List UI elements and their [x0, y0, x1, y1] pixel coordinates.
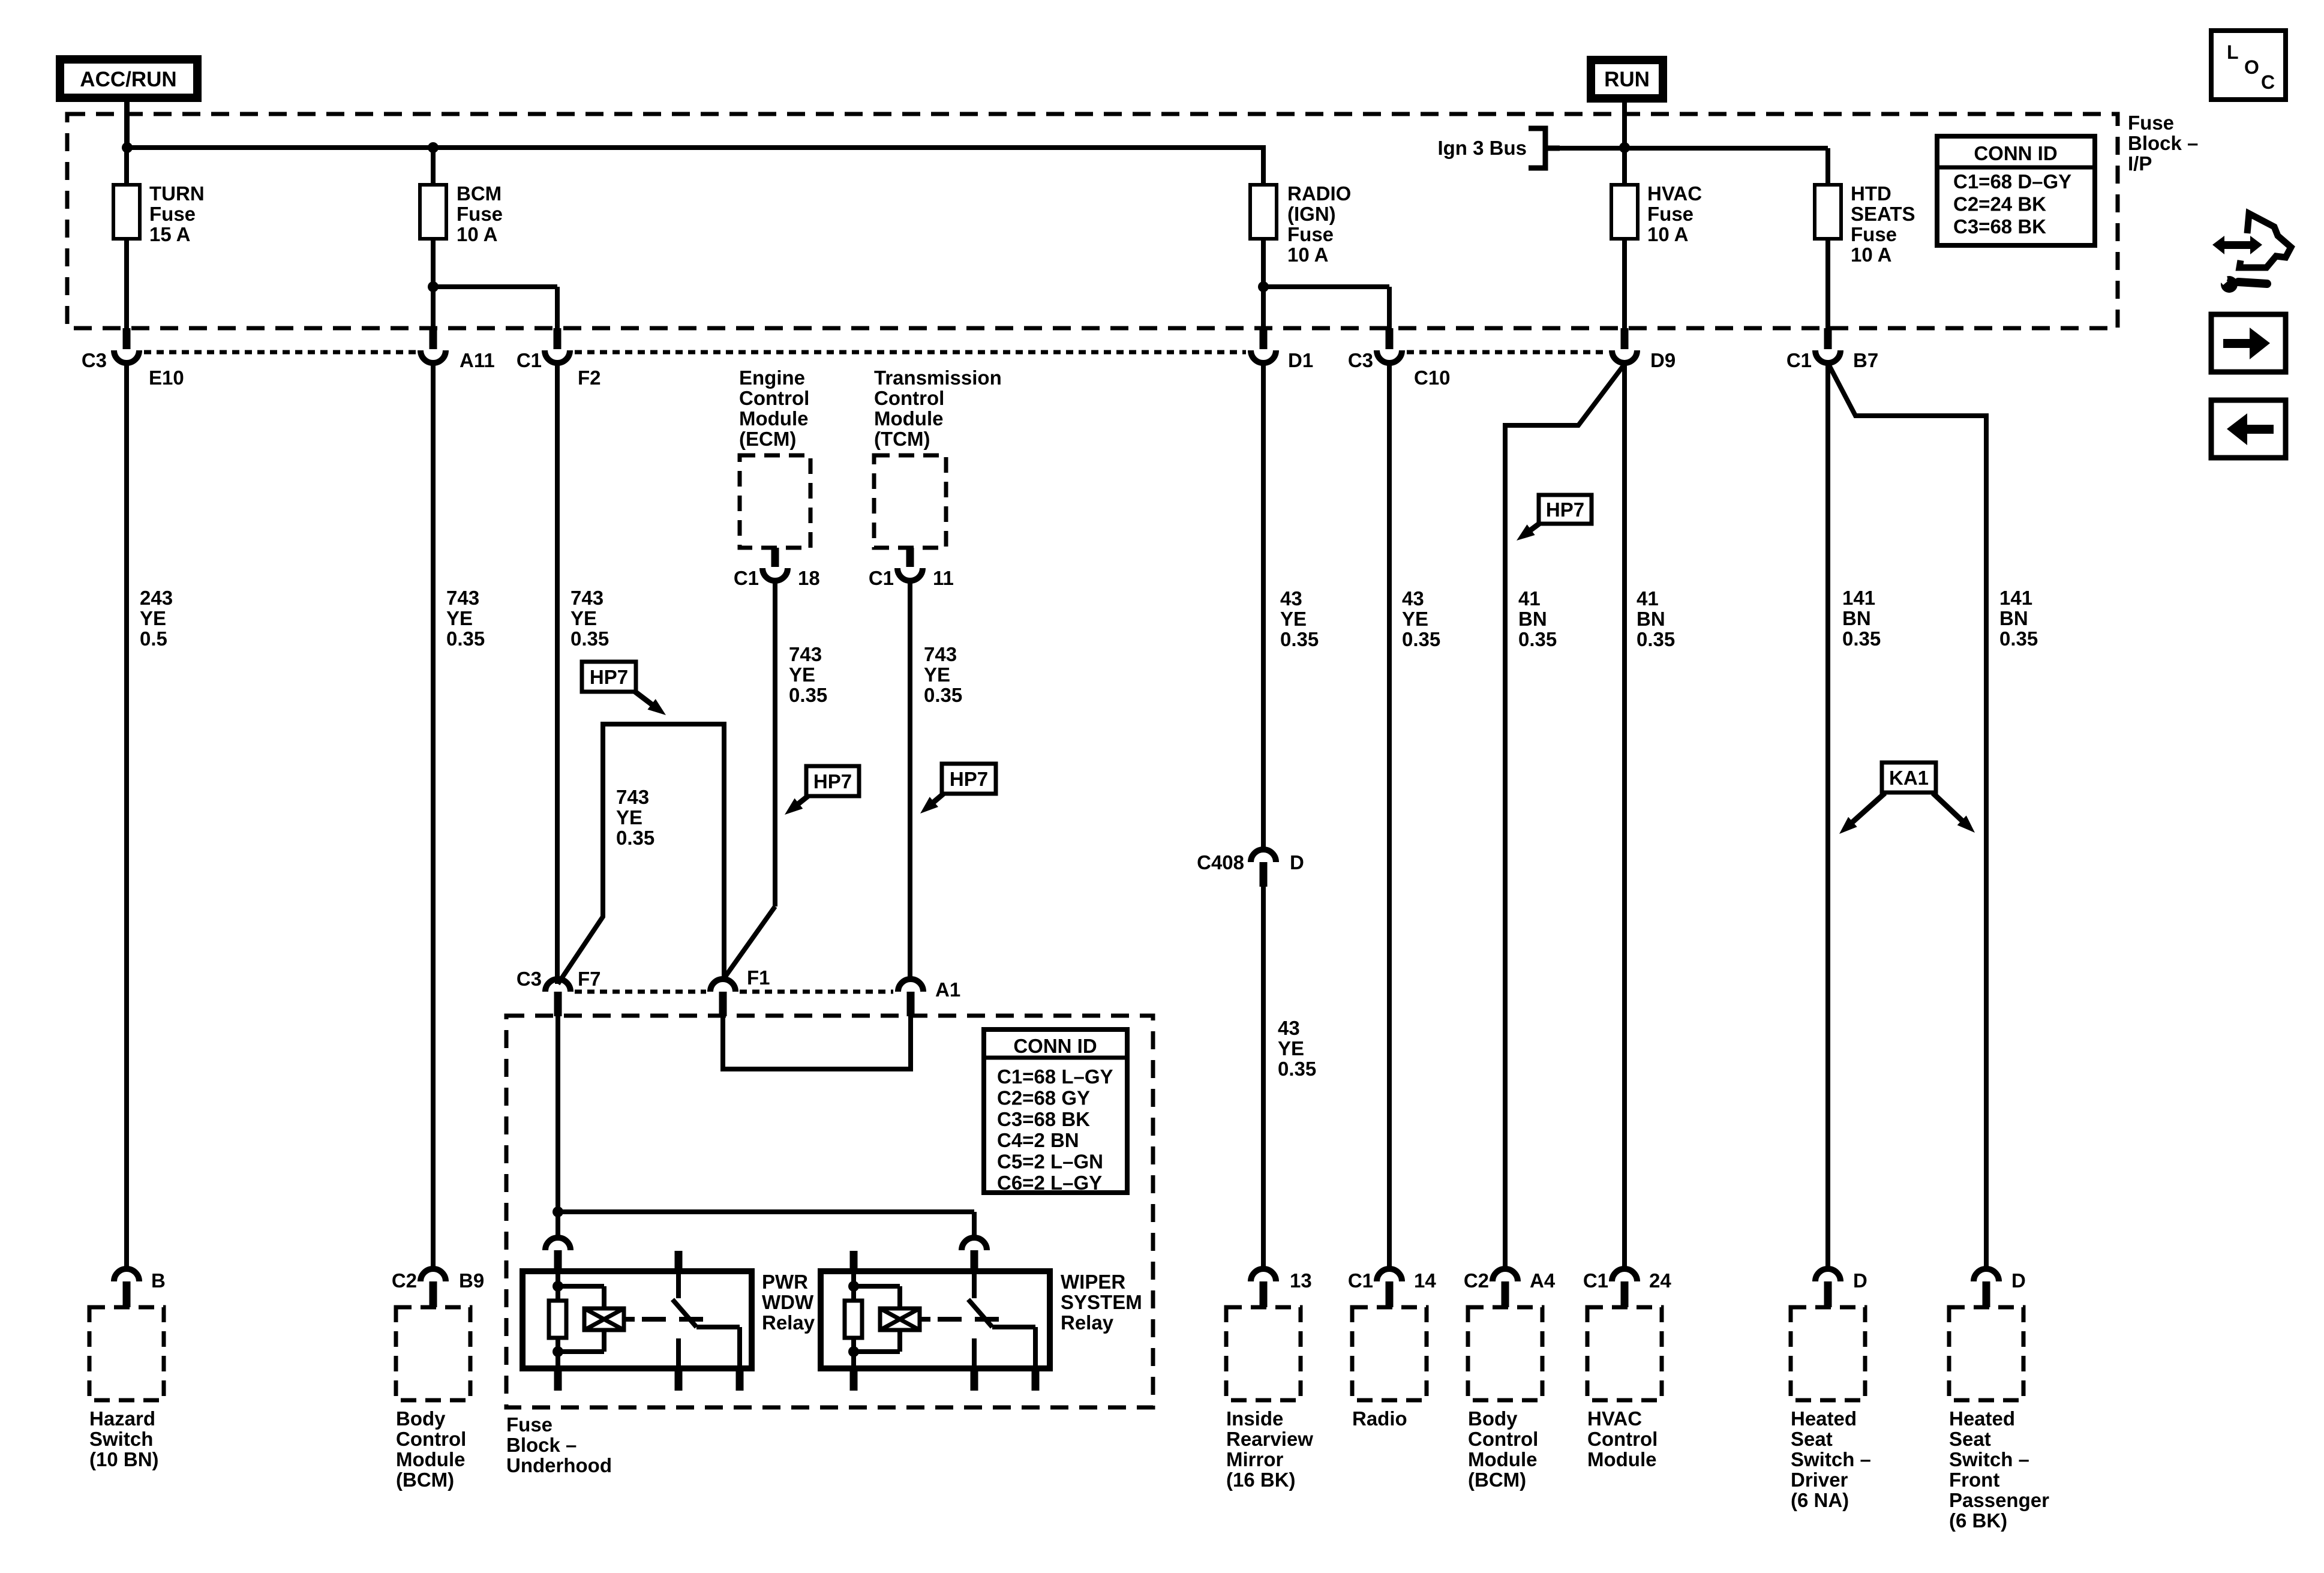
- wire 41 BN D9 to HVAC module: [1622, 363, 1627, 1269]
- svg-text:13: 13: [1290, 1269, 1312, 1292]
- svg-text:141: 141: [1999, 587, 2032, 609]
- svg-text:B: B: [151, 1269, 166, 1292]
- svg-text:10 A: 10 A: [1647, 223, 1688, 245]
- wire RUN feed down: [1622, 98, 1627, 185]
- svg-text:A4: A4: [1530, 1269, 1556, 1292]
- svg-text:10 A: 10 A: [457, 223, 497, 245]
- svg-text:24: 24: [1649, 1269, 1671, 1292]
- label Inside Rearview Mirror: [1226, 1407, 1313, 1491]
- svg-text:Heated: Heated: [1949, 1407, 2015, 1430]
- svg-text:Fuse: Fuse: [149, 203, 196, 225]
- component radio connector: [1377, 1269, 1402, 1307]
- svg-text:Mirror: Mirror: [1226, 1448, 1284, 1470]
- svg-text:0.5: 0.5: [140, 628, 167, 650]
- svg-text:YE: YE: [140, 607, 166, 629]
- label pin D passenger: [2011, 1269, 2026, 1292]
- component radio dashed box: [1352, 1307, 1427, 1400]
- svg-text:Module: Module: [874, 407, 943, 430]
- label wire 743 YE 0.35 loop: [616, 786, 654, 849]
- svg-text:Fuse: Fuse: [1851, 223, 1897, 245]
- connector C3 pin F7: [545, 979, 571, 1016]
- svg-text:0.35: 0.35: [571, 628, 609, 650]
- wiper relay bottom pins: [850, 1368, 1040, 1391]
- svg-text:(10 BN): (10 BN): [89, 1448, 159, 1470]
- svg-text:C4=2 BN: C4=2 BN: [997, 1129, 1079, 1151]
- svg-text:0.35: 0.35: [924, 684, 962, 706]
- connector C408 pin D: [1251, 849, 1276, 887]
- svg-text:141: 141: [1842, 587, 1875, 609]
- svg-text:Module: Module: [1587, 1448, 1656, 1470]
- svg-text:C1: C1: [734, 567, 759, 589]
- arrow HP7 b: [785, 795, 809, 815]
- wire 43 YE D1 to C408: [1261, 363, 1266, 849]
- svg-text:KA1: KA1: [1889, 767, 1929, 789]
- svg-text:D: D: [1853, 1269, 1867, 1292]
- svg-text:(TCM): (TCM): [874, 428, 930, 450]
- svg-text:0.35: 0.35: [1278, 1058, 1316, 1080]
- label C10: [1414, 367, 1451, 389]
- svg-text:(BCM): (BCM): [1468, 1469, 1526, 1491]
- component inside rearview mirror dashed box: [1226, 1307, 1301, 1400]
- svg-text:C3=68 BK: C3=68 BK: [1953, 215, 2046, 238]
- label WIPER SYSTEM Relay: [1061, 1271, 1142, 1334]
- arrow KA1 left: [1839, 793, 1885, 834]
- label wire 43 YE 0.35 b: [1278, 1017, 1316, 1080]
- label D9: [1650, 349, 1676, 371]
- svg-text:Block –: Block –: [2128, 132, 2198, 154]
- svg-text:Control: Control: [1468, 1428, 1538, 1450]
- wire ACC/RUN bus: [127, 145, 1266, 150]
- svg-text:Body: Body: [396, 1407, 446, 1430]
- svg-text:Fuse: Fuse: [1647, 203, 1694, 225]
- label Transmission Control Module: [874, 367, 1002, 450]
- svg-text:YE: YE: [1402, 608, 1428, 630]
- svg-text:HVAC: HVAC: [1587, 1407, 1642, 1430]
- svg-text:C2: C2: [1464, 1269, 1489, 1292]
- svg-text:Switch –: Switch –: [1791, 1448, 1871, 1470]
- label B7: [1853, 349, 1878, 371]
- wire 743 YE from ECM: [723, 581, 775, 979]
- svg-text:D: D: [1290, 851, 1304, 873]
- conn id table fuse block I/P: [1937, 136, 2095, 245]
- svg-text:C5=2 L–GN: C5=2 L–GN: [997, 1151, 1103, 1173]
- label C1 of F2: [517, 349, 542, 371]
- connector C1 pin B7: [1815, 328, 1840, 363]
- svg-text:Fuse: Fuse: [506, 1413, 553, 1436]
- svg-text:WDW: WDW: [762, 1291, 814, 1313]
- svg-text:Switch –: Switch –: [1949, 1448, 2029, 1470]
- label PWR WDW Relay: [762, 1271, 815, 1334]
- svg-text:C3: C3: [517, 968, 542, 990]
- label pin 18: [798, 567, 820, 589]
- module TCM dashed box: [874, 455, 946, 548]
- label KA1 splice: [1882, 763, 1936, 792]
- module ECM dashed box: [740, 455, 810, 548]
- svg-text:F1: F1: [747, 966, 770, 989]
- fuse RADIO IGN 10A: [1250, 185, 1277, 328]
- wire ACC/RUN feed down: [125, 98, 130, 148]
- svg-text:C1: C1: [1786, 349, 1812, 371]
- label C3 of C10: [1348, 349, 1373, 371]
- label HP7 splice c: [942, 764, 996, 794]
- label HP7 splice a: [582, 662, 636, 692]
- svg-text:A1: A1: [935, 978, 960, 1001]
- label Ign 3 Bus: [1437, 137, 1527, 159]
- label C1 of TCM: [869, 567, 894, 589]
- wire bus drop to RADIO fuse: [433, 148, 1263, 185]
- component hazard switch dashed box: [89, 1307, 164, 1400]
- connector C3 pin C10: [1377, 328, 1402, 363]
- svg-text:TURN: TURN: [149, 182, 205, 205]
- label Radio: [1352, 1407, 1407, 1430]
- connector C1 pin 11 of TCM: [897, 548, 923, 581]
- svg-text:D9: D9: [1650, 349, 1676, 371]
- label HTD SEATS fuse: [1851, 182, 1915, 266]
- svg-text:Ign 3 Bus: Ign 3 Bus: [1437, 137, 1527, 159]
- arrow KA1 right: [1933, 793, 1975, 833]
- svg-text:HTD: HTD: [1851, 182, 1891, 205]
- label wire 41 BN 0.35 a: [1518, 587, 1557, 650]
- svg-text:C1=68 L–GY: C1=68 L–GY: [997, 1065, 1113, 1088]
- label HVAC Control Module: [1587, 1407, 1658, 1470]
- label C1 of HVAC: [1583, 1269, 1608, 1292]
- svg-text:0.35: 0.35: [1842, 628, 1881, 650]
- svg-text:(16 BK): (16 BK): [1226, 1469, 1296, 1491]
- svg-text:C10: C10: [1414, 367, 1451, 389]
- wire 743 YE to BCM B9: [431, 363, 436, 1269]
- connector pin A11: [421, 328, 446, 363]
- wire 141 BN B7 to driver switch: [1825, 363, 1830, 1269]
- label pin 24: [1649, 1269, 1671, 1292]
- svg-text:SYSTEM: SYSTEM: [1061, 1291, 1142, 1313]
- svg-text:O: O: [2244, 56, 2259, 78]
- svg-text:C3=68 BK: C3=68 BK: [997, 1108, 1090, 1130]
- bracket Ign 3 Bus: [1529, 128, 1560, 168]
- relay PWR WDW box: [523, 1271, 752, 1368]
- svg-text:Module: Module: [1468, 1448, 1537, 1470]
- pwr wdw relay resistor: [549, 1271, 566, 1368]
- svg-text:HP7: HP7: [1546, 499, 1584, 521]
- svg-text:YE: YE: [446, 607, 473, 629]
- component heated seat switch passenger connector: [1974, 1269, 1999, 1307]
- component body control module 1 connector: [421, 1269, 446, 1307]
- connector C1 pin 18 of ECM: [762, 548, 788, 581]
- label C408: [1197, 851, 1244, 873]
- svg-text:Inside: Inside: [1226, 1407, 1283, 1430]
- label pin 14: [1414, 1269, 1436, 1292]
- svg-text:BN: BN: [1637, 608, 1665, 630]
- component hazard switch connector: [114, 1269, 139, 1307]
- component body control module 1 dashed box: [396, 1307, 470, 1400]
- svg-text:Radio: Radio: [1352, 1407, 1407, 1430]
- svg-text:YE: YE: [1280, 608, 1307, 630]
- svg-text:43: 43: [1280, 587, 1302, 610]
- label pin B hazard: [151, 1269, 166, 1292]
- label C3: [82, 349, 107, 371]
- node Ign 3 Bus junction: [1619, 142, 1630, 153]
- icon LOC box: [2211, 31, 2286, 100]
- svg-text:C6=2 L–GY: C6=2 L–GY: [997, 1172, 1102, 1194]
- svg-text:YE: YE: [924, 664, 950, 686]
- svg-text:743: 743: [571, 587, 603, 609]
- svg-text:YE: YE: [1278, 1037, 1304, 1059]
- label Hazard Switch: [89, 1407, 159, 1470]
- svg-text:E10: E10: [149, 367, 184, 389]
- svg-text:C3: C3: [82, 349, 107, 371]
- arrow HP7 d: [1517, 523, 1540, 541]
- svg-text:743: 743: [616, 786, 649, 808]
- svg-text:41: 41: [1518, 587, 1541, 610]
- svg-text:41: 41: [1637, 587, 1659, 610]
- svg-text:0.35: 0.35: [1280, 628, 1319, 650]
- label wire 141 BN 0.35 a: [1842, 587, 1881, 650]
- relay WIPER SYSTEM box: [821, 1271, 1050, 1368]
- label C2 of BCM B9: [392, 1269, 417, 1292]
- svg-text:C1: C1: [1348, 1269, 1373, 1292]
- fuse BCM 10A: [420, 185, 446, 328]
- svg-text:Engine: Engine: [739, 367, 805, 389]
- svg-text:Control: Control: [1587, 1428, 1658, 1450]
- wire 41 BN D9 branch to BCM A4: [1505, 364, 1625, 1269]
- label Heated Seat Switch Passenger: [1949, 1407, 2049, 1532]
- label wire 743 YE 0.35 ecm: [789, 643, 827, 706]
- svg-text:HP7: HP7: [590, 666, 628, 688]
- connector wiper relay switch pin: [962, 1238, 987, 1271]
- svg-text:Relay: Relay: [762, 1311, 815, 1334]
- svg-text:BN: BN: [1842, 607, 1871, 629]
- svg-text:Fuse: Fuse: [2128, 112, 2174, 134]
- label F7: [578, 968, 601, 990]
- svg-text:(6 NA): (6 NA): [1791, 1489, 1849, 1511]
- node BCM fuse tap: [428, 142, 439, 153]
- svg-text:Rearview: Rearview: [1226, 1428, 1313, 1450]
- label HVAC fuse: [1647, 182, 1702, 245]
- wire 43 YE C10 to radio: [1387, 363, 1392, 1269]
- label C1 of radio: [1348, 1269, 1373, 1292]
- connector pin A1: [898, 979, 923, 1016]
- svg-text:D1: D1: [1288, 349, 1313, 371]
- svg-text:Seat: Seat: [1949, 1428, 1991, 1450]
- arrow HP7 c: [920, 793, 944, 813]
- svg-text:Driver: Driver: [1791, 1469, 1848, 1491]
- svg-text:YE: YE: [789, 664, 815, 686]
- svg-text:743: 743: [789, 643, 822, 665]
- label Fuse Block - Underhood: [506, 1413, 612, 1476]
- svg-text:C1: C1: [869, 567, 894, 589]
- label E10: [149, 367, 184, 389]
- svg-text:743: 743: [924, 643, 957, 665]
- label wire 743 YE 0.35 a: [446, 587, 485, 650]
- svg-text:0.35: 0.35: [446, 628, 485, 650]
- svg-text:Front: Front: [1949, 1469, 1999, 1491]
- arrow HP7 a: [633, 691, 666, 715]
- svg-text:L: L: [2227, 41, 2239, 63]
- wire 43 YE C408 to mirror: [1261, 887, 1266, 1269]
- underhood connector dotted line: [575, 990, 893, 994]
- svg-text:(6 BK): (6 BK): [1949, 1509, 2007, 1532]
- label BCM fuse: [457, 182, 503, 245]
- svg-text:RADIO: RADIO: [1287, 182, 1351, 205]
- svg-text:43: 43: [1402, 587, 1424, 610]
- fuse HTD SEATS 10A: [1815, 185, 1841, 328]
- svg-text:Relay: Relay: [1061, 1311, 1114, 1334]
- wiper relay switch: [968, 1271, 1035, 1368]
- svg-text:BCM: BCM: [457, 182, 502, 205]
- label Engine Control Module: [739, 367, 809, 450]
- svg-text:C1: C1: [1583, 1269, 1608, 1292]
- label wire 743 YE 0.35 b: [571, 587, 609, 650]
- connector row dotted line: [144, 350, 1607, 355]
- component heated seat switch driver connector: [1815, 1269, 1840, 1307]
- icon arrow right box: [2211, 314, 2286, 372]
- label wire 141 BN 0.35 b: [1999, 587, 2038, 650]
- svg-text:WIPER: WIPER: [1061, 1271, 1125, 1293]
- svg-text:Control: Control: [739, 387, 809, 409]
- svg-text:15 A: 15 A: [149, 223, 190, 245]
- svg-text:Transmission: Transmission: [874, 367, 1002, 389]
- svg-text:C1=68 D–GY: C1=68 D–GY: [1953, 170, 2071, 193]
- svg-text:I/P: I/P: [2128, 152, 2152, 175]
- fuse block I/P dashed outline: [67, 114, 2118, 328]
- label pin A4: [1530, 1269, 1556, 1292]
- wire BCM fuse branch to F2: [433, 287, 557, 328]
- connector pin F1: [710, 979, 735, 1016]
- pwr wdw relay actuator link: [624, 1317, 703, 1322]
- svg-text:RUN: RUN: [1604, 68, 1650, 91]
- svg-text:43: 43: [1278, 1017, 1300, 1039]
- label wire 743 YE 0.35 tcm: [924, 643, 962, 706]
- wire 141 BN B7 branch to passenger switch: [1828, 364, 1986, 1269]
- connector C3 pin E10: [114, 328, 139, 363]
- connector pin D1: [1251, 328, 1276, 363]
- svg-text:(BCM): (BCM): [396, 1469, 454, 1491]
- label Body Control Module BCM: [396, 1407, 466, 1491]
- component HVAC control module dashed box: [1587, 1307, 1662, 1400]
- icon arrow left box: [2211, 400, 2286, 458]
- label D1: [1288, 349, 1313, 371]
- svg-text:(ECM): (ECM): [739, 428, 796, 450]
- label F1: [747, 966, 770, 989]
- component HVAC control module connector: [1612, 1269, 1637, 1307]
- label Fuse Block - I/P: [2128, 112, 2198, 175]
- label D of C408: [1290, 851, 1304, 873]
- svg-text:10 A: 10 A: [1287, 244, 1328, 266]
- fuse HVAC 10A: [1611, 185, 1638, 328]
- svg-text:C408: C408: [1197, 851, 1244, 873]
- wiper relay coil: [854, 1286, 920, 1352]
- label wire 41 BN 0.35 b: [1637, 587, 1675, 650]
- connector pin D9: [1612, 328, 1637, 363]
- connector C1 pin F2: [545, 328, 570, 363]
- svg-text:F2: F2: [578, 367, 601, 389]
- wire 743 YE from TCM: [908, 581, 912, 980]
- svg-text:BN: BN: [1999, 607, 2028, 629]
- svg-text:Fuse: Fuse: [1287, 223, 1334, 245]
- svg-text:0.35: 0.35: [1518, 628, 1557, 650]
- svg-text:(IGN): (IGN): [1287, 203, 1336, 225]
- label Body Control Module BCM 2: [1468, 1407, 1538, 1491]
- label pin 11: [933, 567, 954, 589]
- label F2: [578, 367, 601, 389]
- label pin D driver: [1853, 1269, 1867, 1292]
- wiper relay actuator link: [920, 1317, 999, 1322]
- node BCM fuse branch: [428, 281, 439, 292]
- conn id table underhood: [984, 1029, 1127, 1194]
- svg-text:Control: Control: [874, 387, 944, 409]
- svg-text:Block –: Block –: [506, 1434, 577, 1456]
- component inside rearview mirror connector: [1251, 1269, 1276, 1307]
- svg-text:HVAC: HVAC: [1647, 182, 1702, 205]
- node RADIO fuse branch: [1258, 281, 1269, 292]
- svg-text:Hazard: Hazard: [89, 1407, 155, 1430]
- svg-text:Fuse: Fuse: [457, 203, 503, 225]
- label pin 13: [1290, 1269, 1312, 1292]
- wire F1 to A1 link: [723, 1016, 911, 1069]
- power feed box ACC/RUN: [60, 59, 197, 98]
- svg-text:14: 14: [1414, 1269, 1436, 1292]
- svg-text:A11: A11: [460, 349, 495, 371]
- label C3 of F7: [517, 968, 542, 990]
- svg-text:11: 11: [933, 567, 954, 589]
- svg-text:Heated: Heated: [1791, 1407, 1857, 1430]
- svg-text:Module: Module: [396, 1448, 465, 1470]
- label C1 of ECM: [734, 567, 759, 589]
- svg-text:0.35: 0.35: [1999, 628, 2038, 650]
- wire F7 to relays: [558, 1016, 974, 1238]
- fuse block underhood dashed outline: [506, 1016, 1153, 1407]
- component body control module 2 dashed box: [1468, 1307, 1542, 1400]
- svg-text:Body: Body: [1468, 1407, 1518, 1430]
- wire 743 YE loop F7 to F1: [558, 724, 724, 984]
- svg-text:BN: BN: [1518, 608, 1547, 630]
- svg-text:F7: F7: [578, 968, 601, 990]
- svg-text:Underhood: Underhood: [506, 1454, 612, 1476]
- pwr wdw relay coil: [558, 1286, 624, 1352]
- svg-text:CONN ID: CONN ID: [1974, 142, 2057, 164]
- svg-text:C1: C1: [517, 349, 542, 371]
- svg-text:HP7: HP7: [813, 770, 852, 792]
- svg-text:ACC/RUN: ACC/RUN: [80, 68, 176, 91]
- svg-text:0.35: 0.35: [616, 827, 654, 849]
- label wire 43 YE 0.35 c: [1402, 587, 1440, 650]
- wire 243 YE to hazard switch: [124, 363, 129, 1269]
- svg-text:C2=68 GY: C2=68 GY: [997, 1086, 1090, 1109]
- connector pwr wdw relay coil pin: [545, 1238, 571, 1271]
- component heated seat switch passenger dashed box: [1949, 1307, 2023, 1400]
- node ACC/RUN bus junction: [122, 142, 133, 153]
- svg-text:0.35: 0.35: [789, 684, 827, 706]
- fuse TURN 15A: [113, 98, 140, 328]
- label A11: [460, 349, 495, 371]
- svg-text:18: 18: [798, 567, 820, 589]
- svg-text:Module: Module: [739, 407, 808, 430]
- component body control module 2 connector: [1493, 1269, 1518, 1307]
- pwr wdw relay switch: [672, 1251, 740, 1368]
- label A1: [935, 978, 960, 1001]
- svg-text:CONN ID: CONN ID: [1013, 1035, 1097, 1057]
- svg-text:Control: Control: [396, 1428, 466, 1450]
- svg-text:YE: YE: [616, 806, 642, 828]
- svg-text:10 A: 10 A: [1851, 244, 1891, 266]
- svg-text:0.35: 0.35: [1402, 628, 1440, 650]
- svg-text:243: 243: [140, 587, 173, 609]
- svg-text:B9: B9: [459, 1269, 484, 1292]
- label HP7 splice b: [806, 766, 859, 796]
- svg-text:743: 743: [446, 587, 479, 609]
- svg-text:Switch: Switch: [89, 1428, 153, 1450]
- label pin B9: [459, 1269, 484, 1292]
- pwr wdw relay bottom pins: [554, 1368, 744, 1391]
